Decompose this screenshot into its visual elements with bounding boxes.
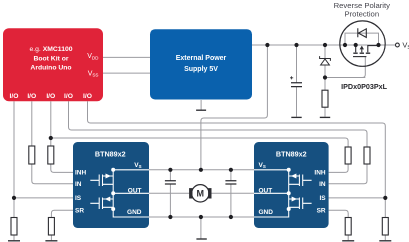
svg-text:SR: SR xyxy=(317,208,326,215)
svg-text:Arduino Uno: Arduino Uno xyxy=(30,65,71,72)
svg-text:IPDx0P03PxL: IPDx0P03PxL xyxy=(341,82,388,91)
mosfet gate bar xyxy=(353,56,366,58)
capacitor C3 plus sign xyxy=(290,76,293,79)
svg-text:e.g. XMC1100: e.g. XMC1100 xyxy=(29,46,72,53)
svg-text:BTN89x2: BTN89x2 xyxy=(95,150,126,159)
wire I/O1 down to IS node xyxy=(13,101,15,198)
node dots xyxy=(287,168,291,211)
node GND rail cap2 xyxy=(229,215,233,219)
svg-text:IN: IN xyxy=(75,181,82,188)
svg-text:IS: IS xyxy=(75,195,82,202)
node Vs rail cap1 xyxy=(168,168,172,172)
svg-text:Boot Kit or: Boot Kit or xyxy=(33,55,68,62)
rail xyxy=(113,170,149,217)
zener diode D1 xyxy=(320,56,331,65)
node Vs rail supply xyxy=(199,168,203,172)
svg-text:I/O: I/O xyxy=(83,93,92,100)
resistor R_SR_L xyxy=(48,218,54,236)
motor M circle xyxy=(192,185,209,202)
resistor R_INH_L xyxy=(48,146,54,164)
wire bridge center ground stub xyxy=(200,217,202,239)
resistor R_gate xyxy=(322,90,328,107)
node zener top xyxy=(323,43,327,47)
node ecap xyxy=(294,43,298,47)
resistor R_IS_L xyxy=(11,218,17,236)
wire VSS to supply xyxy=(103,72,150,74)
ground GND2 ecap xyxy=(291,116,301,118)
motor M brushes xyxy=(189,188,211,198)
ground GND8 xyxy=(379,240,391,242)
node zener gate junction xyxy=(323,75,327,79)
resistor R_IS_R xyxy=(382,218,388,236)
wire zener branch xyxy=(324,45,326,117)
wire VDD to supply xyxy=(103,56,150,58)
terminal Vs open circle xyxy=(396,43,400,47)
rail xyxy=(254,170,289,217)
wire ecap branch xyxy=(296,45,298,117)
node Vs rail cap2 xyxy=(229,168,233,172)
capacitor C3 electrolytic plates xyxy=(291,83,302,87)
wire right IS resistor to ground xyxy=(384,198,386,240)
node rail3 xyxy=(49,136,53,140)
supply blue box xyxy=(150,29,252,99)
resistor R_SR_R xyxy=(345,218,351,236)
mosfet drain jog xyxy=(368,46,379,53)
svg-text:BTN89x2: BTN89x2 xyxy=(276,150,307,159)
wire main 5V line supply to Vs terminal xyxy=(252,44,395,46)
hs fet gate xyxy=(289,175,312,187)
node mosfet drain xyxy=(376,43,380,47)
wire right INH resistor to box xyxy=(329,164,349,172)
wire right SR to resistor xyxy=(329,210,349,240)
svg-text:INH: INH xyxy=(75,170,87,177)
wire cap C1 branch xyxy=(169,170,171,217)
node supply branch xyxy=(265,43,269,47)
ground GND4 bridge center xyxy=(196,238,206,240)
ls fet gate xyxy=(289,198,312,210)
resistor R_IN_L xyxy=(29,146,35,164)
capacitor C1 plates xyxy=(165,181,176,184)
svg-text:External Power: External Power xyxy=(176,55,227,62)
mosfet source stub xyxy=(355,45,357,52)
wire I/O1 resistor to ground xyxy=(13,198,15,240)
wire bridge GND rail xyxy=(149,216,254,218)
body diode D2 xyxy=(358,28,367,37)
ground GND3 zener resistor xyxy=(320,116,330,118)
node GND rail cap1 xyxy=(168,215,172,219)
svg-text:Protection: Protection xyxy=(344,9,379,18)
wire gate down from mosfet xyxy=(362,57,365,78)
left half-bridge internals xyxy=(90,170,149,217)
mosfet body arrow xyxy=(361,49,363,52)
ground GND7 xyxy=(342,240,354,242)
wire I/O2 down to resistor xyxy=(31,101,33,146)
svg-text:SR: SR xyxy=(75,208,84,215)
ls fet arrow xyxy=(105,197,111,202)
wire bridge Vs rail xyxy=(149,169,254,171)
wire left INH resistor to box xyxy=(51,164,73,172)
wire IS left to box xyxy=(14,197,73,199)
svg-text:Supply 5V: Supply 5V xyxy=(184,66,218,73)
resistor R_INH_R xyxy=(345,147,351,164)
svg-text:GND: GND xyxy=(127,209,142,216)
svg-text:I/O: I/O xyxy=(64,93,73,100)
BTN right box xyxy=(254,142,329,228)
wire cap C2 branch xyxy=(230,170,232,217)
node mosfet source xyxy=(354,43,358,47)
right half-bridge internals xyxy=(254,170,312,217)
ground GND5 xyxy=(8,240,20,242)
wire resistor R2 to IN left xyxy=(32,164,73,184)
wire left OUT to motor xyxy=(149,192,190,194)
hs fet arrow xyxy=(106,174,112,179)
wire right OUT to motor xyxy=(211,192,254,194)
svg-text:IN: IN xyxy=(319,181,326,188)
svg-text:I/O: I/O xyxy=(46,93,55,100)
ls fet arrow xyxy=(292,197,298,202)
svg-text:I/O: I/O xyxy=(10,93,19,100)
svg-text:IS: IS xyxy=(319,195,326,202)
wire zener-gate junction to gate xyxy=(325,77,365,79)
capacitor C2 plates xyxy=(225,181,236,184)
MCU red box xyxy=(3,28,103,101)
node right IS xyxy=(383,196,387,200)
hs fet arrow xyxy=(291,174,297,179)
wire supply ground stub xyxy=(200,100,202,110)
wire body diode branch xyxy=(345,33,379,45)
wires layer xyxy=(14,33,395,240)
BTN left box xyxy=(73,142,149,228)
node GND rail center xyxy=(199,215,203,219)
wire supply branch down-left-down to bridge Vs rail xyxy=(201,45,268,170)
node left IS xyxy=(12,196,16,200)
wire right IN resistor to box xyxy=(329,164,367,184)
svg-text:GND: GND xyxy=(259,209,274,216)
svg-text:INH: INH xyxy=(314,170,326,177)
mosfet channel dashes xyxy=(353,52,370,54)
wire I/O4 rail2 to right IN resistor xyxy=(69,101,368,147)
wire left SR to resistor xyxy=(51,210,73,240)
svg-text:I/O: I/O xyxy=(27,93,36,100)
ground GND1 supply xyxy=(196,109,206,111)
ls fet gate xyxy=(90,198,113,210)
node dots xyxy=(111,168,115,211)
svg-text:VS: VS xyxy=(134,162,141,169)
resistor R_IN_R xyxy=(364,147,370,164)
ground GND6 xyxy=(45,240,57,242)
hs fet gate xyxy=(90,175,113,187)
mosfet U1 internals xyxy=(353,45,379,57)
wire I/O3 down to rail3 node xyxy=(50,101,52,146)
mosfet circle U1 xyxy=(340,21,385,66)
wire right IS to box xyxy=(329,197,386,199)
wire I/O5 rail1 to right IS node xyxy=(88,101,386,198)
node diode left xyxy=(343,43,347,47)
wire rail3 INH shared xyxy=(51,138,348,147)
svg-text:VS: VS xyxy=(402,41,409,51)
svg-text:VS: VS xyxy=(259,162,266,169)
svg-text:M: M xyxy=(197,189,205,199)
